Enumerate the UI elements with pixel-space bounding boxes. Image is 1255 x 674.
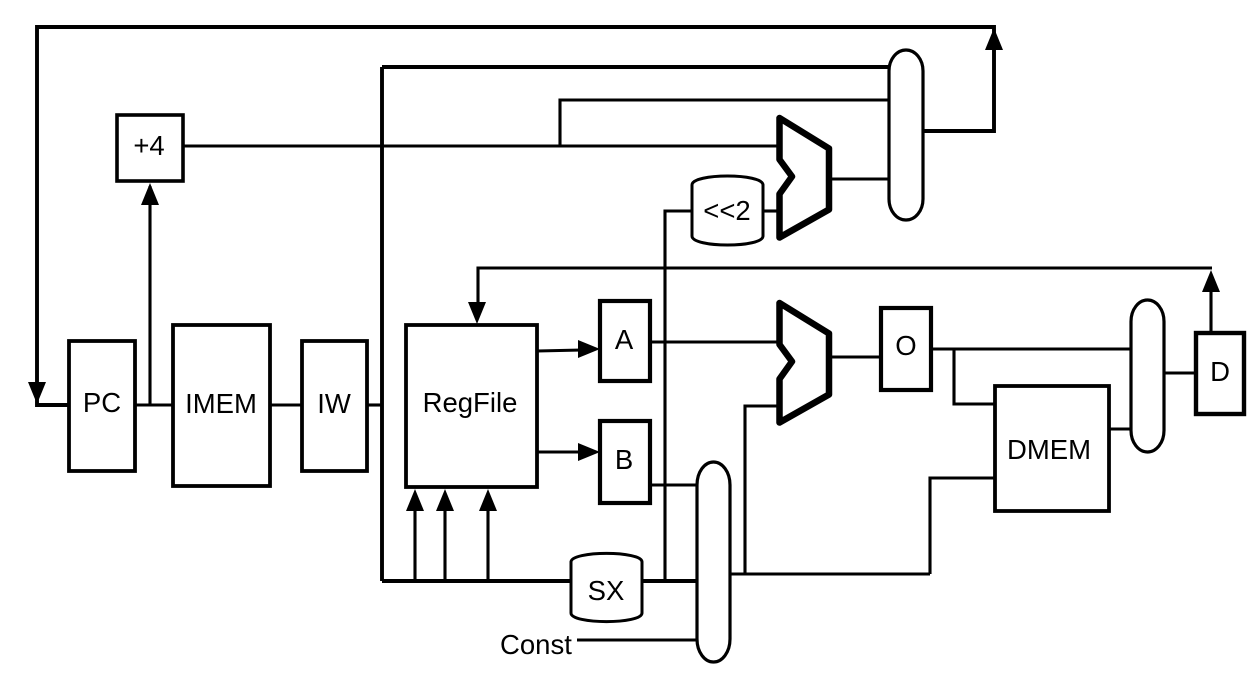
- wire Const into mux M2: [577, 638, 700, 641]
- arrowhead into B: [578, 443, 600, 461]
- wire A out to ALU U2: [650, 340, 780, 343]
- wire O branch down to DMEM upper input: [954, 349, 995, 404]
- wire junction up to +4: [148, 186, 151, 405]
- svg-text:IMEM: IMEM: [185, 388, 257, 419]
- wire regfile write port 1: [413, 505, 416, 581]
- adder U1 (branch target): [780, 118, 830, 238]
- wire B out to mux M2: [649, 483, 699, 486]
- mux M3 (writeback select): [1131, 300, 1164, 452]
- svg-text:SX: SX: [588, 575, 625, 606]
- memory DMEM: [995, 386, 1109, 511]
- svg-text:PC: PC: [83, 387, 121, 418]
- register D: [1196, 333, 1244, 414]
- register B: [600, 421, 650, 503]
- wire mux M2 output: [731, 572, 930, 575]
- wire +4 output to adder U1: [182, 144, 779, 147]
- arrowhead into +4: [141, 183, 159, 205]
- svg-text:Const: Const: [500, 629, 572, 660]
- wire regfile write port 3: [486, 505, 489, 581]
- svg-text:IW: IW: [317, 388, 351, 419]
- ALU U2: [780, 303, 830, 423]
- mux M2 (ALU operand select): [697, 462, 730, 662]
- RegFile: [406, 325, 537, 487]
- svg-text:A: A: [615, 324, 634, 355]
- wire M2 out branch up to ALU U2: [745, 406, 780, 574]
- arrowhead down into RegFile top: [468, 302, 486, 324]
- svg-text:RegFile: RegFile: [423, 387, 518, 418]
- wire O output to mux M3: [929, 347, 1131, 350]
- shifter <<2: [692, 176, 763, 245]
- register A: [600, 301, 650, 381]
- wire RegFile to B: [537, 450, 582, 453]
- arrowhead into A: [578, 340, 600, 358]
- register IW: [302, 341, 367, 471]
- wire mux M3 output to D: [1165, 371, 1196, 374]
- wire DMEM output to mux M3: [1109, 427, 1131, 430]
- memory IMEM: [173, 325, 270, 486]
- register O: [881, 308, 931, 390]
- wire instruction bus vertical: [380, 67, 384, 581]
- arrowhead regfile write 2: [436, 489, 454, 511]
- wire RegFile to A: [537, 350, 582, 351]
- mux M1 (next PC select): [889, 50, 923, 220]
- wire regfile write port 2: [443, 505, 446, 581]
- arrowhead up at writeback rail: [1202, 270, 1220, 292]
- wire next-PC loop: mux out to top rail, down left edge into PC: [37, 27, 994, 405]
- svg-text:D: D: [1210, 356, 1230, 387]
- wire ALU U2 output to O: [829, 355, 881, 358]
- adder +4: [117, 115, 183, 181]
- wire IMEM to IW: [270, 403, 302, 406]
- wire PC+4 branch to mux M1 input 2: [560, 100, 892, 146]
- wire shifter out to adder U1: [763, 209, 779, 212]
- arrowhead regfile write 1: [406, 489, 424, 511]
- wire PC to IMEM: [135, 403, 173, 406]
- register PC: [69, 341, 135, 471]
- arrowhead regfile write 3: [479, 489, 497, 511]
- wire IW to instruction bus: [367, 403, 382, 406]
- wire M2 out to DMEM lower input: [930, 478, 995, 574]
- arrowhead into PC: [28, 382, 46, 404]
- svg-text:+4: +4: [133, 130, 164, 161]
- svg-text:O: O: [895, 330, 916, 361]
- svg-text:DMEM: DMEM: [1007, 434, 1091, 465]
- wire bus top to mux M1 input 1: [382, 65, 892, 69]
- arrowhead up at top rail: [985, 28, 1003, 50]
- wire adder U1 output to mux M1 input 3: [829, 177, 892, 180]
- sign extender SX: [571, 553, 642, 621]
- svg-text:<<2: <<2: [703, 195, 750, 226]
- wire SX out up to shifter: [665, 211, 692, 581]
- wire D up to writeback rail: [1209, 288, 1212, 333]
- svg-text:B: B: [615, 444, 633, 475]
- wire writeback rail: [478, 268, 1212, 308]
- wire bottom bus to SX and mux M2: [382, 579, 699, 583]
